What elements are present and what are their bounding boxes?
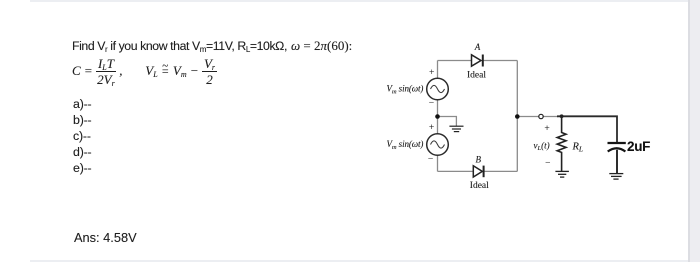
source V2	[427, 134, 449, 156]
wire ground stub	[438, 117, 457, 127]
source V1	[427, 78, 449, 100]
capacitor C1 plates	[608, 143, 626, 173]
diode A	[472, 55, 483, 67]
resistor RL	[557, 116, 566, 171]
top hairline	[30, 0, 700, 2]
svg-text:−: −	[429, 99, 434, 109]
wire top rail	[438, 60, 518, 62]
node RL tap	[560, 114, 564, 118]
ground G2 (under RL)	[555, 171, 569, 177]
node junction left	[435, 114, 440, 119]
svg-text:+: +	[429, 68, 434, 78]
node junction output	[515, 114, 520, 119]
wire load rail	[557, 116, 617, 142]
svg-text:+: +	[429, 123, 434, 133]
wire bottom rail	[438, 170, 518, 172]
formula line	[72, 56, 217, 86]
svg-text:−: −	[545, 159, 550, 169]
diode B	[473, 166, 483, 178]
svg-text:Ideal: Ideal	[470, 181, 489, 191]
answer	[74, 230, 137, 245]
wire output tap	[517, 116, 558, 118]
ground G1	[449, 126, 463, 131]
svg-text:Ideal: Ideal	[467, 71, 486, 81]
svg-text:Vm sin(ωt): Vm sin(ωt)	[387, 84, 424, 96]
ground G3 (under C1)	[609, 174, 623, 180]
question title	[72, 39, 352, 53]
right gray strip	[690, 0, 700, 262]
svg-text:A: A	[474, 42, 481, 52]
options	[73, 97, 91, 111]
bottom hairline	[30, 260, 690, 262]
svg-text:RL: RL	[572, 142, 584, 154]
svg-text:2uF: 2uF	[627, 139, 650, 154]
terminal open circle	[539, 114, 543, 118]
svg-text:vL(t): vL(t)	[534, 141, 550, 153]
svg-text:+: +	[544, 124, 549, 134]
svg-text:B: B	[476, 155, 482, 165]
svg-text:Vm sin(ωt): Vm sin(ωt)	[387, 139, 424, 151]
wire middle rail	[516, 61, 518, 172]
svg-text:−: −	[428, 154, 433, 164]
wire left rail	[437, 61, 439, 172]
